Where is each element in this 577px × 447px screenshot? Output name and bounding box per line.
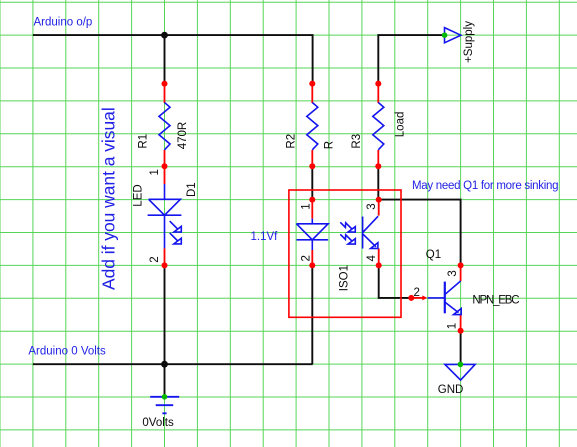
svg-text:470R: 470R [177,122,189,150]
svg-text:4: 4 [366,255,378,262]
svg-text:Arduino o/p: Arduino o/p [34,17,93,29]
svg-text:Arduino 0 Volts: Arduino 0 Volts [28,346,106,358]
svg-text:May need Q1 for more sinking: May need Q1 for more sinking [412,180,558,192]
svg-text:3: 3 [366,203,378,209]
svg-text:3: 3 [447,270,459,276]
phototransistor [363,216,379,248]
svg-text:2: 2 [149,256,161,262]
junction bottom rail [161,361,168,368]
svg-text:1: 1 [446,323,458,329]
pin 3 [378,200,380,216]
internal LED [297,216,379,250]
svg-text:R3: R3 [351,134,363,149]
svg-text:R: R [324,141,336,149]
wire +Supply feed [378,35,443,84]
wire Q1 emitter to GND [460,331,462,365]
pin 2 [311,250,313,265]
svg-text:Q1: Q1 [426,249,441,261]
svg-text:Load: Load [395,112,407,138]
svg-text:Add if you want a visual: Add if you want a visual [99,107,119,290]
wire R1 top feed [164,35,166,84]
light arrow 2 [340,234,355,244]
svg-text:GND: GND [438,384,464,396]
body [428,281,462,315]
svg-text:2: 2 [414,287,420,299]
svg-text:1: 1 [149,169,161,175]
wire ISO1 pin3 to Q1 collector [379,200,461,266]
svg-text:+Supply: +Supply [463,21,475,63]
svg-text:R1: R1 [137,134,149,149]
svg-text:1: 1 [300,203,312,209]
wire R3 bottom to ISO1 pin3 [377,166,379,199]
light arrow 1 [340,222,355,232]
wire ISO1 pin2 down to bottom rail [311,265,313,364]
wire LED D1 cathode to bottom rail [164,265,166,364]
junction top rail [161,32,168,39]
svg-text:0Volts: 0Volts [142,417,174,429]
svg-text:D1: D1 [186,182,198,197]
svg-text:NPN_EBC: NPN_EBC [472,294,519,306]
wire R2 bottom to ISO1 pin1 [311,166,313,199]
svg-text:1.1Vf: 1.1Vf [251,231,279,243]
pin 2 base with arrow [411,297,422,299]
svg-text:2: 2 [300,255,312,261]
wire top rail Arduino o/p [33,35,313,84]
svg-text:LED: LED [133,184,145,206]
pin 1 [311,200,313,219]
wire bottom rail to 0Volts ground [164,364,166,396]
pin 3 collector [460,265,462,281]
pin 1 emitter [460,315,462,331]
wire bottom rail Arduino 0 Volts [33,363,313,365]
wire ISO1 pin4 to Q1 base [379,265,412,298]
svg-text:ISO1: ISO1 [339,265,351,291]
pin 4 [378,248,380,265]
svg-text:R2: R2 [286,134,298,149]
